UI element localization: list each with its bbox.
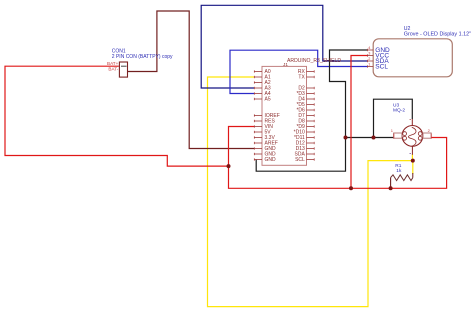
svg-text:4: 4 [368,46,370,50]
svg-text:ARDUINO_R3_SHIELD: ARDUINO_R3_SHIELD [287,58,341,64]
svg-text:2 PIN CON (BATTPY) copy: 2 PIN CON (BATTPY) copy [112,54,173,60]
svg-text:MQ-2: MQ-2 [393,107,405,113]
svg-text:SCL: SCL [375,64,388,71]
svg-text:2: 2 [368,57,370,61]
svg-text:J1: J1 [283,62,288,68]
svg-text:BAT+: BAT+ [107,61,119,66]
svg-text:3: 3 [368,51,370,55]
svg-text:A5: A5 [265,97,271,103]
svg-text:1: 1 [391,128,394,133]
svg-text:Grove - OLED Display 1.12": Grove - OLED Display 1.12" [404,32,471,38]
svg-text:2: 2 [428,128,431,133]
svg-text:SCL: SCL [295,157,305,163]
svg-text:1k: 1k [396,168,402,174]
svg-text:1: 1 [368,62,370,66]
svg-text:TX: TX [298,75,305,81]
svg-text:GND: GND [265,157,277,163]
svg-text:BAT-: BAT- [108,67,118,72]
